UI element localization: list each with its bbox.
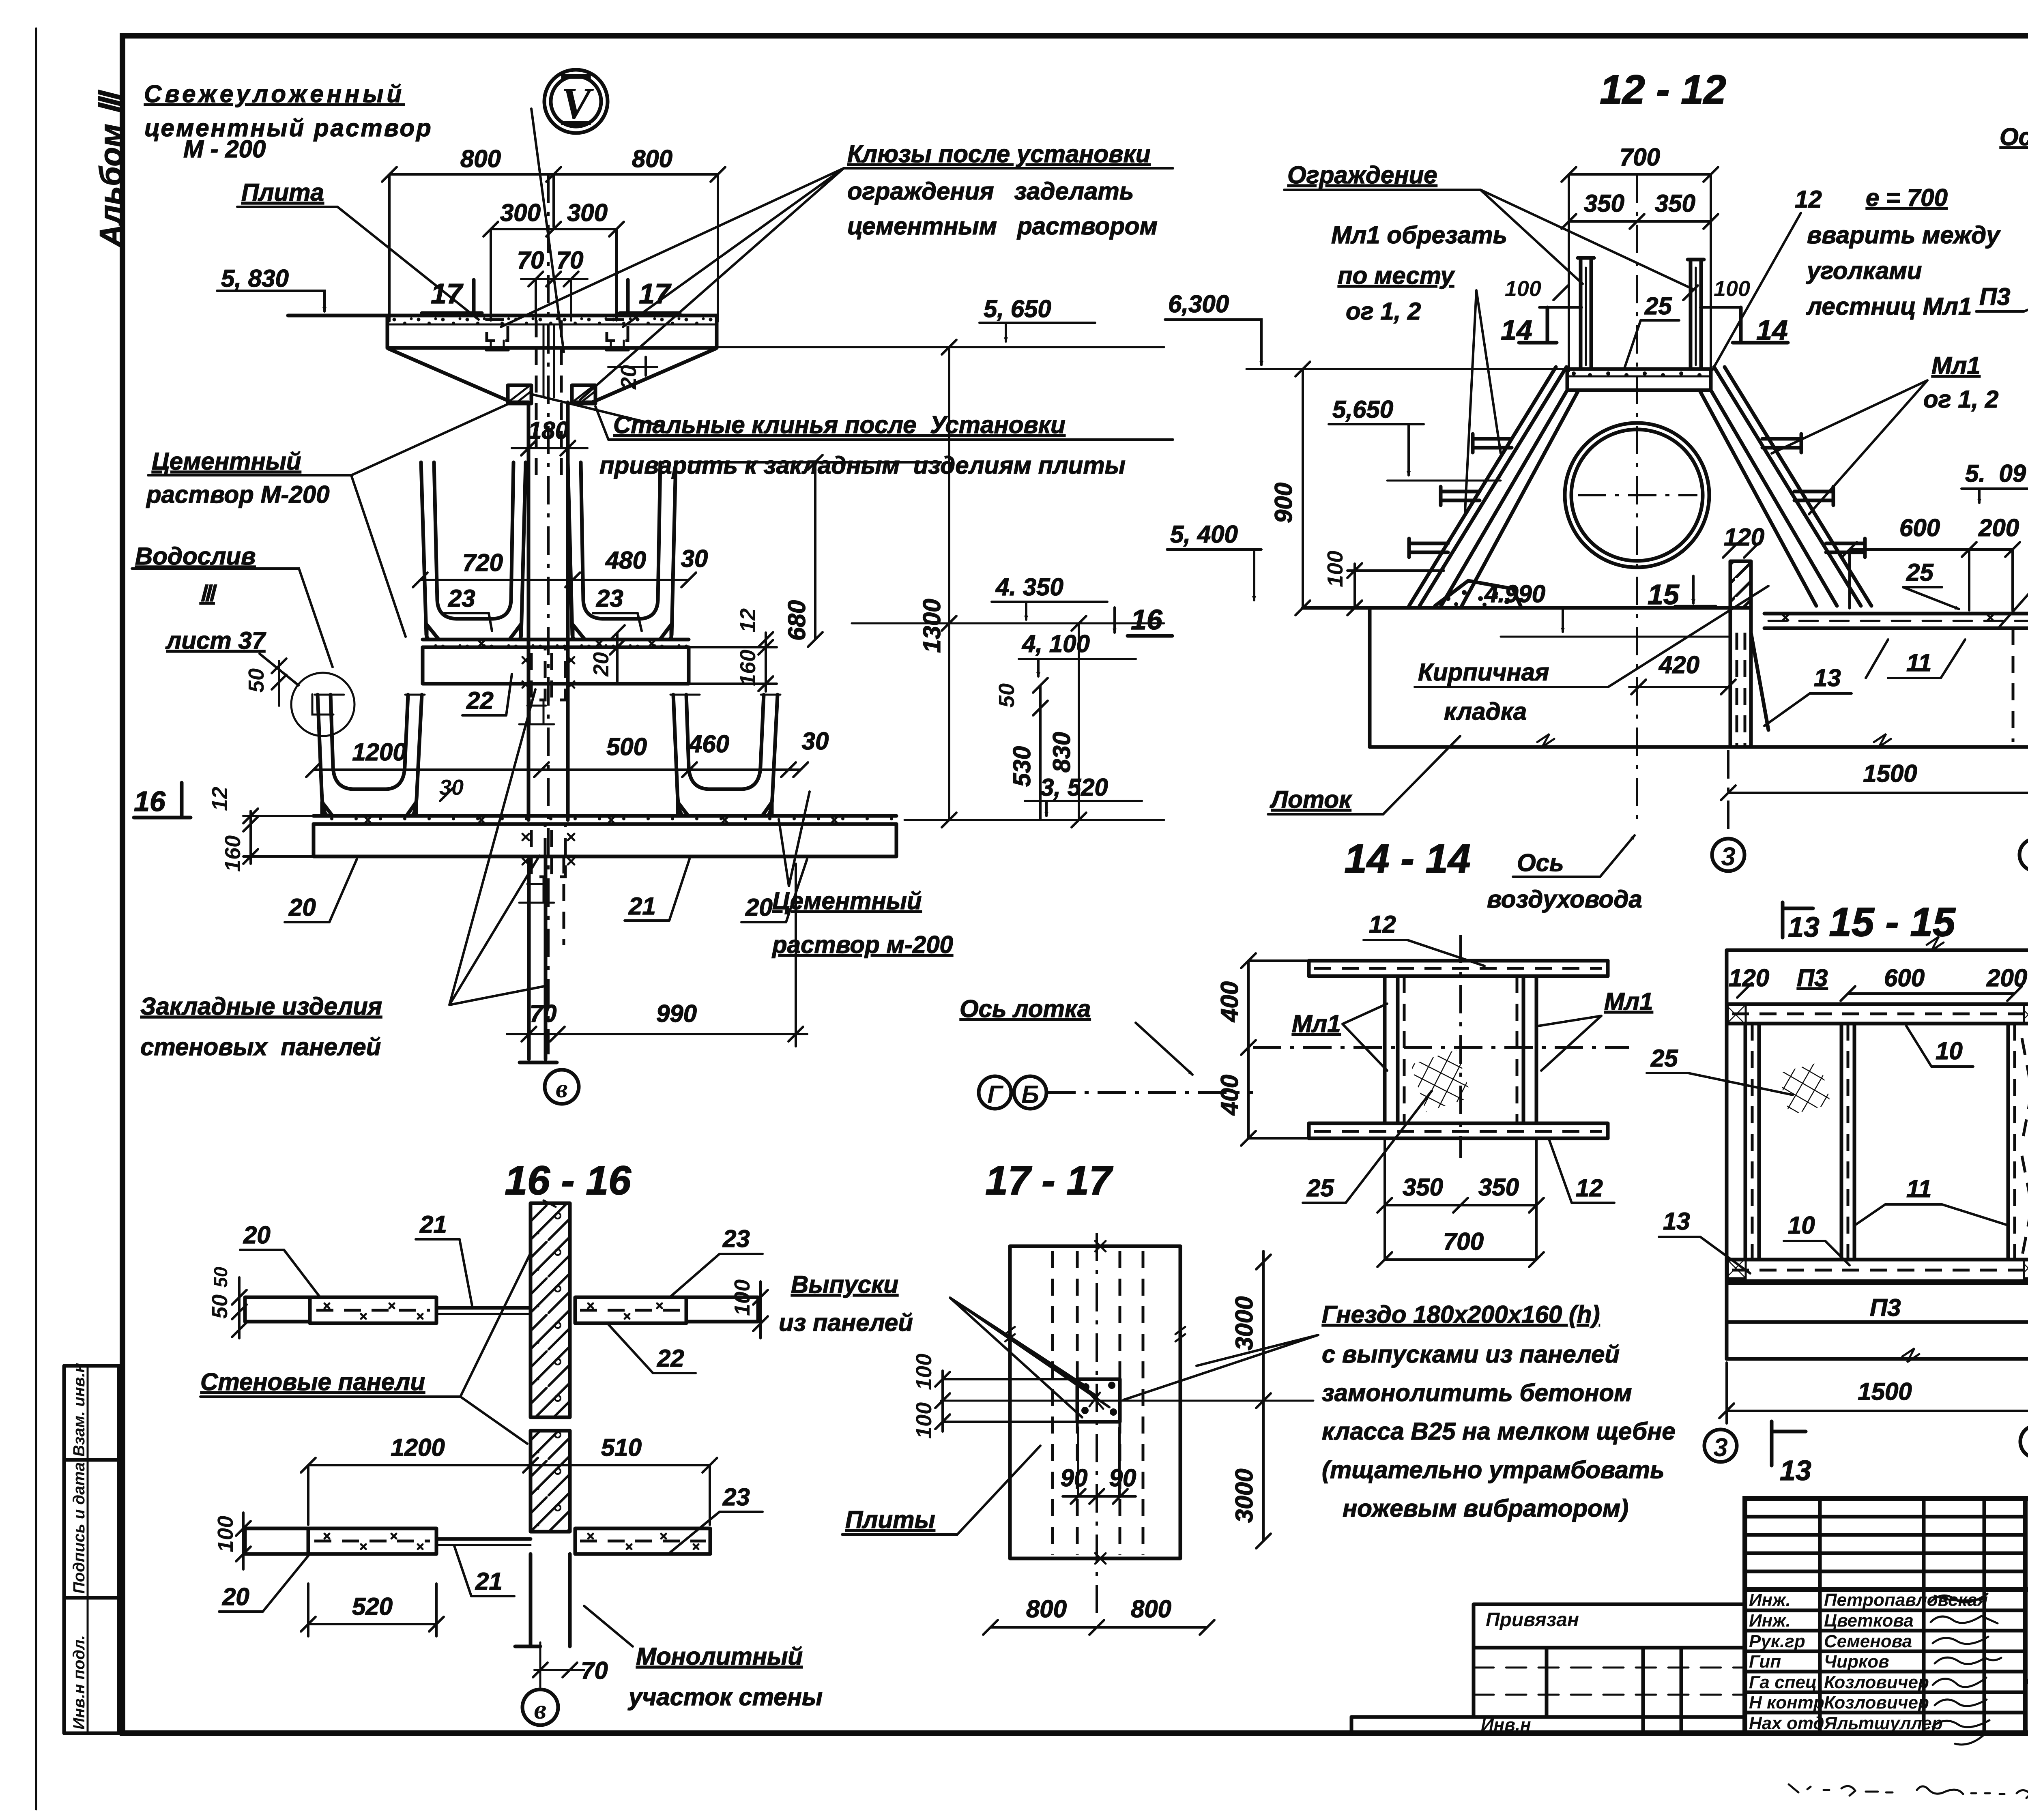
svg-text:800: 800 <box>1131 1595 1171 1623</box>
labels 13 11 below slab <box>1764 640 1965 726</box>
svg-text:22: 22 <box>657 1345 684 1372</box>
svg-text:1500: 1500 <box>1858 1378 1912 1405</box>
label 25 platform plate <box>1624 292 1679 368</box>
label 12 top <box>1364 911 1484 966</box>
label cement mortar m-200 right <box>771 792 953 958</box>
svg-text:16 - 16: 16 - 16 <box>505 1158 632 1203</box>
dim 1500 <box>1721 633 2028 839</box>
elevation 4.100 <box>1019 630 1136 676</box>
svg-text:800: 800 <box>632 145 672 172</box>
node B circle 16-16 <box>522 1689 558 1725</box>
svg-text:10: 10 <box>1788 1212 1815 1239</box>
svg-text:П3: П3 <box>1797 964 1828 992</box>
label ML1 right <box>1538 988 1653 1071</box>
section mark 14 right <box>1733 307 1788 346</box>
label 22 mid <box>608 1324 696 1373</box>
svg-text:460: 460 <box>688 730 729 758</box>
svg-text:70: 70 <box>517 247 544 274</box>
dim 420 <box>1629 651 1736 694</box>
svg-text:160: 160 <box>736 650 760 686</box>
attachment table <box>1351 1604 1745 1735</box>
signature rows <box>1749 1590 1988 1733</box>
elevation 4.350 <box>852 573 1164 623</box>
base angle cleats row1 <box>427 625 671 640</box>
label wall panels <box>200 1253 531 1444</box>
svg-text:воздуховода: воздуховода <box>1487 886 1642 913</box>
svg-text:800: 800 <box>460 145 501 172</box>
svg-text:Инв.н подл.: Инв.н подл. <box>70 1635 88 1730</box>
channel trough row1 left <box>421 462 526 640</box>
svg-text:21: 21 <box>628 893 656 920</box>
dim 990 and 70 <box>507 864 807 1046</box>
svg-text:П3: П3 <box>1870 1294 1901 1321</box>
label 12 e=700 weld note <box>1712 184 2001 370</box>
signature scribbles <box>1931 1594 2001 1745</box>
elevation 4.990 centre <box>1484 580 1728 637</box>
grid circle 3 lower <box>1704 1429 1737 1462</box>
svg-text:50: 50 <box>244 668 269 693</box>
svg-text:530: 530 <box>1008 746 1035 787</box>
svg-text:Чирков: Чирков <box>1824 1652 1889 1672</box>
label ML1 cut to fit <box>1331 221 1507 512</box>
label 23 upper right <box>669 1225 763 1298</box>
svg-text:800: 800 <box>1026 1595 1067 1623</box>
braced edge column 15-15 <box>2022 1038 2028 1257</box>
svg-text:3, 520: 3, 520 <box>1040 774 1108 801</box>
dims 800 800 bottom <box>983 1595 1214 1635</box>
svg-text:Свежеуложенный: Свежеуложенный <box>144 80 405 107</box>
label drain (vodosliv) <box>132 543 333 685</box>
trough slab body <box>1303 608 2028 747</box>
bottom band 15-15 <box>1727 1260 2028 1281</box>
dims 50 50 row A <box>208 1266 247 1338</box>
grid circle 4 lower <box>2020 1425 2028 1458</box>
svg-text:Инж.: Инж. <box>1749 1590 1791 1610</box>
svg-text:50: 50 <box>208 1294 232 1319</box>
label kirpichnaya kladka <box>1415 586 1768 725</box>
node B circle left assembly <box>545 1070 579 1104</box>
svg-text:30: 30 <box>802 728 829 755</box>
svg-text:Монолитный: Монолитный <box>636 1643 803 1670</box>
svg-text:23: 23 <box>722 1483 750 1511</box>
svg-text:уголками: уголками <box>1806 257 1922 284</box>
section mark 16 left <box>134 783 191 818</box>
svg-text:50: 50 <box>995 683 1019 708</box>
elevation 5.650 <box>717 295 1164 347</box>
svg-text:Водослив: Водослив <box>135 543 256 570</box>
svg-text:Мл1: Мл1 <box>1604 988 1653 1015</box>
labels 23 row1 <box>444 585 642 631</box>
left margin stamp boxes <box>64 1363 119 1733</box>
svg-text:по месту: по месту <box>1338 262 1455 289</box>
svg-text:12: 12 <box>1576 1174 1603 1202</box>
svg-text:10: 10 <box>1936 1037 1963 1065</box>
svg-text:12: 12 <box>1369 911 1396 938</box>
svg-text:П3: П3 <box>1979 283 2011 310</box>
vertical dims 50 and 830 and 530 <box>995 616 1086 827</box>
plate body <box>387 315 717 348</box>
slab plan outline <box>1005 1241 1185 1564</box>
label axis of trough with grid circles <box>960 995 1192 1075</box>
svg-text:680: 680 <box>783 600 810 641</box>
plan centre axis <box>1096 1233 1098 1620</box>
ladder ML1 right <box>1714 367 1871 606</box>
svg-text:стеновых панелей: стеновых панелей <box>140 1033 381 1060</box>
svg-text:Ограждение: Ограждение <box>1287 161 1437 189</box>
elevation 5.650 centre <box>1329 396 1501 481</box>
svg-text:300: 300 <box>567 199 608 226</box>
svg-text:Га спец: Га спец <box>1749 1672 1817 1692</box>
embedded plates at column row1 <box>519 647 574 724</box>
svg-text:990: 990 <box>656 1000 697 1027</box>
leaders from hawse note <box>501 168 844 400</box>
label 12 bottom right <box>1549 1140 1614 1203</box>
svg-text:1500: 1500 <box>1863 760 1917 787</box>
embedded anchor plates in plate <box>487 320 628 341</box>
label embedded items of wall panels <box>140 689 548 1060</box>
slab row A right <box>575 1297 758 1323</box>
svg-text:Ось лотка: Ось лотка <box>2000 123 2028 150</box>
svg-text:12: 12 <box>736 608 760 633</box>
svg-text:600: 600 <box>1884 964 1925 992</box>
svg-text:3000: 3000 <box>1231 1469 1258 1523</box>
svg-text:1300: 1300 <box>918 599 945 653</box>
beam slab 22 row1 <box>423 647 689 684</box>
svg-text:Кирпичная: Кирпичная <box>1418 659 1549 686</box>
label 22 leader <box>462 674 512 715</box>
dimension 300+300 <box>483 199 624 320</box>
svg-text:100: 100 <box>730 1279 754 1316</box>
dims 120 P3 600 200 top <box>1729 964 2027 1001</box>
svg-text:5, 400: 5, 400 <box>1170 521 1238 548</box>
svg-text:70: 70 <box>530 1000 557 1027</box>
svg-text:520: 520 <box>352 1593 393 1620</box>
label panel outlets <box>779 1271 1109 1417</box>
svg-text:Цементный: Цементный <box>152 448 301 475</box>
svg-text:Закладные изделия: Закладные изделия <box>140 993 382 1020</box>
svg-text:830: 830 <box>1048 732 1075 773</box>
section mark 13 with title 15-15 <box>1783 902 1820 943</box>
svg-text:из панелей: из панелей <box>779 1309 913 1336</box>
svg-text:350: 350 <box>1478 1174 1519 1201</box>
svg-text:17 - 17: 17 - 17 <box>985 1158 1113 1203</box>
svg-text:100: 100 <box>1505 277 1541 301</box>
brick pillar hatched <box>1723 524 1764 608</box>
svg-text:600: 600 <box>1899 514 1940 541</box>
svg-text:100: 100 <box>912 1354 936 1390</box>
svg-text:100: 100 <box>1323 551 1347 587</box>
svg-text:11: 11 <box>1906 1175 1931 1202</box>
svg-text:в: в <box>534 1694 546 1725</box>
svg-text:приварить к закладным изделия: приварить к закладным изделиям плиты <box>599 452 1126 479</box>
label axis of air duct <box>1487 835 1642 913</box>
svg-text:(тщательно утрамбовать: (тщательно утрамбовать <box>1322 1456 1665 1483</box>
channel trough row1 right <box>568 462 676 640</box>
ground base line <box>1303 606 1744 610</box>
svg-text:160: 160 <box>221 835 245 872</box>
svg-text:Мл1 обрезать: Мл1 обрезать <box>1331 221 1507 249</box>
svg-text:350: 350 <box>1403 1174 1443 1201</box>
dim 700 top <box>1562 144 1718 371</box>
duct bottom flange <box>1309 1123 1608 1138</box>
dims 90 90 <box>1061 1427 1136 1504</box>
column axis line <box>547 174 550 1054</box>
channel trough row2 right <box>670 695 780 816</box>
label plita <box>237 179 479 320</box>
labels 100 100 at rails <box>1505 277 1750 307</box>
dim 100 right row A <box>730 1279 768 1338</box>
section mark 15 left <box>1648 576 1716 610</box>
dim 70 bottom <box>533 1657 608 1684</box>
A-frame legs <box>1441 390 1837 606</box>
capital slants to column <box>389 349 715 402</box>
svg-text:25: 25 <box>1650 1045 1678 1072</box>
svg-text:Рук.гр: Рук.гр <box>1749 1631 1805 1651</box>
label 10 right slab <box>2000 509 2028 627</box>
svg-text:3: 3 <box>1713 1433 1728 1462</box>
svg-text:лестниц Мл1: лестниц Мл1 <box>1806 293 1972 320</box>
svg-text:1200: 1200 <box>391 1434 445 1461</box>
svg-text:Г: Г <box>987 1081 1004 1109</box>
svg-text:12 - 12: 12 - 12 <box>1600 67 1726 112</box>
svg-text:20: 20 <box>617 365 641 390</box>
slab row B right <box>575 1528 710 1554</box>
column shaft <box>528 320 568 820</box>
svg-text:Мл1: Мл1 <box>1292 1010 1341 1037</box>
dim 1500 15-15 <box>1719 1363 2028 1423</box>
dims 3000 3000 right <box>1231 1251 1271 1548</box>
svg-text:90: 90 <box>1109 1464 1136 1492</box>
label ML1 og right <box>1772 352 1998 514</box>
svg-text:20: 20 <box>589 652 613 677</box>
svg-text:4.990: 4.990 <box>1484 580 1545 607</box>
svg-text:Выпуски: Выпуски <box>791 1271 898 1298</box>
svg-text:700: 700 <box>1443 1228 1484 1255</box>
label 20 upper <box>240 1221 320 1298</box>
labels 20 21 20 row2 <box>285 859 807 922</box>
label 20 lower <box>219 1555 309 1612</box>
label fence (ograzhdenie) <box>1284 161 1692 289</box>
base angle cleats row2 <box>322 802 772 816</box>
svg-text:30: 30 <box>681 545 708 572</box>
dim 350 350 14-14 <box>1377 1140 1544 1260</box>
svg-text:ог 1, 2: ог 1, 2 <box>1346 298 1421 325</box>
svg-text:Лоток: Лоток <box>1270 786 1352 813</box>
svg-text:13: 13 <box>1663 1208 1690 1235</box>
svg-text:3000: 3000 <box>1231 1296 1258 1350</box>
svg-text:13: 13 <box>1814 664 1841 691</box>
label 13 15-15 <box>1659 1208 1750 1273</box>
grid circle B <box>1014 1076 1046 1109</box>
svg-text:25: 25 <box>1306 1174 1334 1202</box>
elevation 3.520 <box>904 774 1164 820</box>
ladder ML1 left <box>1409 367 1566 606</box>
label 25 14-14 <box>1303 1091 1432 1203</box>
duct axes <box>1459 935 1462 1158</box>
plan horizontal centre line <box>941 1400 1313 1402</box>
svg-text:50: 50 <box>210 1266 231 1288</box>
svg-text:Взам. инв.н: Взам. инв.н <box>70 1363 88 1457</box>
outer trim line left <box>35 28 37 1809</box>
svg-text:вварить между: вварить между <box>1807 221 2001 249</box>
svg-text:20: 20 <box>745 894 773 921</box>
svg-text:раствор м-200: раствор м-200 <box>771 931 953 958</box>
small dims 20 160 12 row1 <box>589 608 777 691</box>
svg-text:Ось: Ось <box>1517 849 1564 876</box>
grid circle G <box>979 1076 1011 1109</box>
duct side channels <box>1385 976 1536 1123</box>
svg-text:100: 100 <box>912 1402 936 1439</box>
dim 1200 510 <box>301 1434 717 1525</box>
vertical dim 680 <box>690 455 941 647</box>
concrete mound stipple <box>1435 581 1521 607</box>
platform slab of frame <box>1567 369 1711 390</box>
svg-text:Семенова: Семенова <box>1824 1631 1912 1651</box>
svg-text:11: 11 <box>1906 649 1931 676</box>
svg-text:Инв.н: Инв.н <box>1481 1715 1531 1735</box>
svg-text:Ось лотка: Ось лотка <box>960 995 1091 1022</box>
label 10 lower 15-15 <box>1784 1212 1850 1265</box>
axis line from circle B <box>1047 1091 1253 1094</box>
svg-text:300: 300 <box>500 199 541 226</box>
air duct pipe circle <box>1565 423 1709 567</box>
foundation strip 15-15 <box>1727 1283 2028 1362</box>
dim 700 14-14 <box>1377 1228 1544 1267</box>
label 21 lower <box>454 1546 514 1596</box>
label cement mortar M-200 left <box>146 402 512 637</box>
section mark 17 left <box>422 278 482 313</box>
elevation 5.09 right <box>1961 460 2028 503</box>
monolithic wall below <box>515 1554 570 1687</box>
svg-text:20: 20 <box>243 1221 271 1249</box>
svg-text:Гнездо 180х200х160 (h): Гнездо 180х200х160 (h) <box>1322 1301 1600 1328</box>
label 21 upper <box>416 1211 473 1308</box>
svg-text:20: 20 <box>288 894 316 921</box>
svg-text:25: 25 <box>1906 559 1934 586</box>
svg-text:720: 720 <box>462 549 503 576</box>
svg-text:25: 25 <box>1644 292 1672 320</box>
duct top flange <box>1309 961 1608 976</box>
svg-text:100: 100 <box>1714 277 1750 301</box>
svg-text:700: 700 <box>1620 144 1660 171</box>
svg-text:22: 22 <box>466 687 494 714</box>
svg-text:класса В25 на мелком щебне: класса В25 на мелком щебне <box>1322 1418 1676 1445</box>
svg-text:400: 400 <box>1216 1075 1243 1116</box>
dims 1200 500 460 30 row2 <box>306 728 829 801</box>
svg-text:Клюзы после установки: Клюзы после установки <box>847 140 1151 167</box>
top band 15-15 <box>1727 1004 2028 1024</box>
svg-text:70: 70 <box>556 247 584 274</box>
dim 520 <box>301 1584 444 1636</box>
svg-text:Нах отд: Нах отд <box>1749 1713 1824 1733</box>
svg-text:16: 16 <box>1131 604 1163 635</box>
embedded plates at column row2 <box>519 824 574 903</box>
plate top line <box>288 314 717 318</box>
svg-text:Стеновые панели: Стеновые панели <box>200 1368 425 1395</box>
steel wedges with hatch <box>508 385 595 403</box>
label 25 with mesh 15-15 <box>1647 1045 1831 1115</box>
dim 400 400 left <box>1216 953 1310 1146</box>
svg-text:Козловичер: Козловичер <box>1824 1693 1929 1713</box>
svg-text:400: 400 <box>1216 981 1243 1022</box>
svg-text:5, 650: 5, 650 <box>984 295 1051 322</box>
dims 720 480 30 row1 <box>413 545 708 587</box>
svg-text:Плита: Плита <box>241 179 324 206</box>
mortar joint under row1 <box>423 640 689 647</box>
svg-text:ог 1, 2: ог 1, 2 <box>1923 386 1998 413</box>
wall panel lower (hatched) <box>531 1431 570 1532</box>
svg-text:Плиты: Плиты <box>845 1506 935 1533</box>
svg-text:Мл1: Мл1 <box>1931 352 1981 379</box>
svg-text:Цветкова: Цветкова <box>1824 1611 1914 1631</box>
svg-text:5, 830: 5, 830 <box>221 265 289 292</box>
plan joint dashed lines <box>1053 1251 1143 1555</box>
slab row A left <box>245 1297 531 1323</box>
svg-text:21: 21 <box>475 1568 503 1595</box>
label 23 lower right <box>669 1483 763 1553</box>
elevation 5.400 <box>1167 521 1261 600</box>
label hawse note (klyuzy) <box>844 140 1173 240</box>
svg-text:с выпусками из панелей: с выпусками из панелей <box>1322 1341 1620 1368</box>
svg-text:16: 16 <box>134 786 166 817</box>
svg-text:510: 510 <box>601 1434 642 1461</box>
svg-text:17: 17 <box>431 278 464 309</box>
label monolithic section <box>584 1606 823 1711</box>
label lotok <box>1268 736 1460 814</box>
svg-text:1200: 1200 <box>352 738 406 766</box>
svg-text:480: 480 <box>605 547 646 574</box>
svg-text:30: 30 <box>439 775 464 800</box>
dims 600 200 over right slab <box>1842 514 2020 610</box>
svg-text:120: 120 <box>1724 524 1764 551</box>
label steel wedges note <box>531 394 1173 479</box>
fence rails <box>1578 258 1704 367</box>
svg-text:Н контр: Н контр <box>1749 1693 1824 1713</box>
svg-text:12: 12 <box>1795 186 1822 213</box>
section mark 14 left <box>1501 307 1557 346</box>
label 10 top 15-15 <box>1906 1026 1973 1067</box>
mesh patch 14-14 <box>1411 1050 1472 1112</box>
slab row B left <box>245 1528 531 1554</box>
small dims 12 160 row2 left <box>208 787 314 872</box>
svg-text:350: 350 <box>1584 190 1624 217</box>
nest pocket <box>1077 1379 1120 1422</box>
bottom slab row2 <box>314 824 896 856</box>
small dim 20 rotated at plate <box>608 357 657 390</box>
title block table <box>1745 1498 2028 1733</box>
svg-text:Стальные клинья после Установ: Стальные клинья после Установки <box>613 411 1066 438</box>
mortar joint under row2 <box>314 816 896 824</box>
elevation 5.830 <box>217 265 324 311</box>
grid circle 3 <box>1712 839 1744 871</box>
right bearing slab 12-12 <box>1764 614 2028 747</box>
label ML1 left <box>1292 1004 1387 1071</box>
dimension 800+800 <box>382 145 725 321</box>
svg-text:е = 700: е = 700 <box>1866 184 1948 211</box>
svg-text:Ⅲ: Ⅲ <box>200 582 217 606</box>
svg-text:замонолитить бетоном: замонолитить бетоном <box>1322 1379 1632 1406</box>
section mark 17 right <box>620 278 680 313</box>
label plity <box>842 1446 1040 1535</box>
label fresh cement mortar M-200 <box>144 80 433 163</box>
elevation 6.300 (left of 12-12) <box>1165 290 1261 365</box>
dim 100 left row B <box>213 1513 251 1569</box>
wall panel upper (hatched) <box>531 1200 570 1417</box>
section mark 16 top right <box>1115 604 1172 636</box>
svg-text:900: 900 <box>1270 483 1297 523</box>
svg-text:5. 09: 5. 09 <box>1965 460 2026 487</box>
dims 100 100 nest <box>912 1354 1077 1439</box>
